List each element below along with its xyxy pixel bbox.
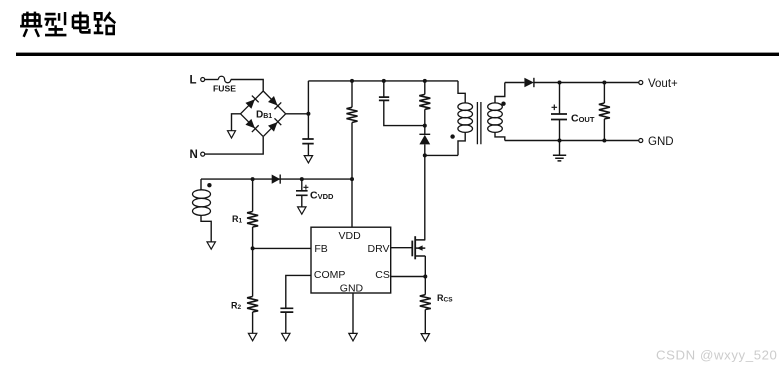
capacitor clamp (379, 81, 425, 126)
svg-text:CSDN @wxyy_520: CSDN @wxyy_520 (656, 348, 777, 363)
transistor Q1 MOSFET (412, 236, 425, 259)
resistor R2 (231, 248, 258, 333)
horizontal rule (16, 53, 779, 56)
terminal L (190, 74, 205, 86)
wire top bus (308, 80, 458, 82)
earth ground output (553, 141, 566, 161)
wire secondary to output diode (505, 82, 525, 84)
node output cap bottom (558, 139, 562, 143)
node load bottom (602, 139, 606, 143)
wire output top line (534, 82, 639, 84)
node switch drain (423, 153, 427, 157)
resistor clamp (419, 81, 430, 126)
svg-text:CS: CS (375, 269, 390, 281)
node primary polarity dot (450, 134, 454, 138)
capacitor COUT (551, 83, 595, 141)
wire VDD line (201, 178, 352, 180)
node load top (602, 81, 606, 85)
wire COMP to cap (286, 275, 311, 308)
wire N to bridge bottom (205, 137, 263, 154)
wire bridge left to ground (232, 114, 241, 131)
ground bulk cap (304, 156, 312, 163)
resistor R1 (232, 179, 258, 248)
diode VDD (272, 175, 281, 184)
node CVDD tap (300, 177, 304, 181)
wire fuse to bridge top (231, 80, 263, 92)
ground Rcs (421, 334, 429, 342)
ground COMP cap (282, 333, 290, 341)
node CS (423, 275, 427, 279)
node secondary polarity dot (501, 102, 505, 106)
wire drain (424, 155, 426, 240)
wire FB to IC (253, 247, 311, 249)
svg-text:VDD: VDD (339, 230, 362, 242)
ground aux winding (207, 242, 215, 249)
wire GND pin (352, 293, 354, 333)
node aux polarity dot (207, 183, 211, 187)
inductor aux winding (193, 179, 212, 242)
node output cap top (558, 81, 562, 85)
wire CS to IC (391, 276, 426, 278)
svg-text:COUT: COUT (571, 113, 595, 125)
wire source to CS (424, 256, 426, 277)
ground bridge (228, 131, 236, 138)
node bridge output (306, 112, 310, 116)
node VDD pin junction (350, 177, 354, 181)
diode clamp (419, 126, 430, 156)
ground R2 (248, 333, 256, 341)
ground IC (349, 333, 357, 341)
ground CVDD (298, 207, 306, 214)
terminal N (190, 149, 205, 161)
wire switch node to transformer (425, 154, 458, 156)
capacitor COMP (280, 308, 293, 333)
resistor startup (347, 81, 358, 227)
wire bridge right to bus (286, 81, 309, 139)
node bus R startup (350, 79, 354, 83)
transformer core (477, 102, 481, 144)
svg-text:RCS: RCS (437, 293, 453, 304)
svg-text:FB: FB (314, 243, 327, 255)
terminal GND output (639, 136, 674, 148)
node clamp bottom (423, 124, 427, 128)
op-amp U1 controller IC (311, 227, 391, 294)
capacitor CVDD (296, 179, 334, 207)
wire L to fuse (205, 79, 219, 81)
svg-text:GND: GND (648, 136, 674, 148)
svg-text:CVDD: CVDD (310, 190, 334, 202)
resistor load (599, 83, 610, 141)
terminal Vout+ (639, 78, 678, 90)
svg-text:N: N (190, 149, 198, 161)
svg-text:R2: R2 (231, 301, 242, 312)
svg-text:L: L (190, 74, 197, 86)
diode output (524, 78, 534, 87)
svg-text:Vout+: Vout+ (648, 78, 678, 90)
svg-text:GND: GND (340, 283, 364, 295)
transformer T1 secondary (488, 83, 505, 141)
bridge rectifier DB1 (241, 91, 286, 137)
node FB (251, 246, 255, 250)
capacitor bulk input (302, 139, 313, 156)
svg-text:DRV: DRV (368, 243, 390, 255)
svg-text:COMP: COMP (314, 269, 346, 281)
fuse FUSE (213, 76, 236, 93)
svg-text:R1: R1 (232, 214, 243, 225)
node bus clamp resistor (423, 79, 427, 83)
svg-text:FUSE: FUSE (213, 84, 236, 94)
transformer T1 primary (458, 81, 473, 155)
node bus clamp cap (382, 79, 386, 83)
wire output bottom line (505, 140, 639, 142)
svg-text:DB1: DB1 (256, 110, 272, 121)
resistor Rcs (420, 277, 453, 334)
wire DRV to gate (391, 247, 412, 249)
node R1 tap (251, 177, 255, 181)
title 典型电路 (20, 12, 115, 37)
